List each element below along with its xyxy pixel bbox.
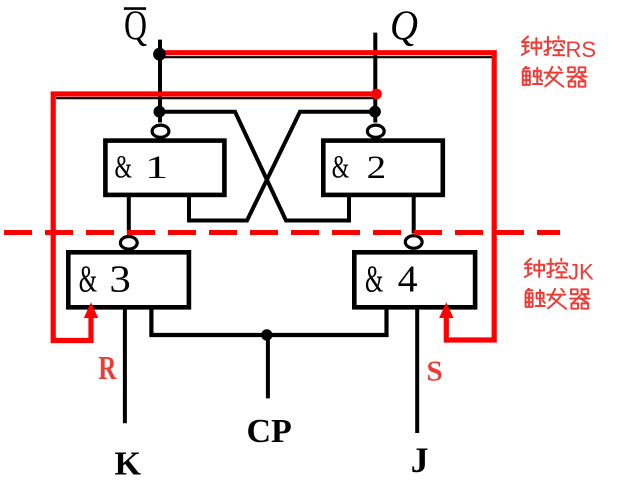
svg-text:4: 4 bbox=[398, 258, 418, 300]
svg-text:3: 3 bbox=[109, 258, 130, 300]
svg-text:&: & bbox=[365, 259, 383, 301]
svg-text:Q: Q bbox=[124, 4, 147, 50]
svg-text:R: R bbox=[98, 350, 117, 387]
svg-text:&: & bbox=[332, 150, 350, 186]
svg-text:CP: CP bbox=[247, 413, 292, 450]
svg-text:S: S bbox=[427, 355, 443, 387]
svg-text:&: & bbox=[79, 259, 97, 301]
svg-text:Q: Q bbox=[390, 4, 418, 50]
svg-text:K: K bbox=[115, 446, 142, 483]
svg-text:2: 2 bbox=[367, 149, 386, 186]
svg-text:RS: RS bbox=[566, 37, 597, 62]
svg-text:&: & bbox=[115, 150, 133, 186]
svg-text:JK: JK bbox=[568, 259, 594, 284]
svg-text:1: 1 bbox=[145, 148, 168, 185]
svg-text:J: J bbox=[411, 440, 429, 480]
